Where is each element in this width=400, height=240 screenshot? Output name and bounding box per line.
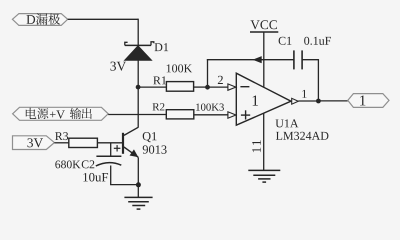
label C1 (279, 37, 292, 45)
wire C1 to node C (302, 59, 318, 101)
wire node A down to Q1 collector (137, 87, 139, 128)
transistor Q1 (123, 127, 138, 157)
node C junction dot (316, 99, 321, 104)
label LM324AD (276, 132, 329, 140)
port flag 电源+V输出 (13, 107, 109, 120)
wire D1 anode to node A (137, 60, 139, 87)
capacitor C1 plates (294, 50, 302, 69)
wire Q1 emitter down to node D (137, 157, 139, 184)
pin 2 arrow (228, 84, 236, 90)
ground at Q1 emitter (124, 197, 152, 209)
power VCC label (250, 20, 276, 29)
resistor R2 (166, 110, 194, 119)
label 100K value of R1 (167, 64, 192, 72)
port flag D漏极 (12, 13, 67, 25)
capacitor C2 positive stub (110, 143, 112, 156)
label 0.1uF value of C1 (304, 37, 331, 45)
label C2 (82, 160, 95, 168)
capacitor C2 plus mark (114, 145, 121, 151)
VCC bar (250, 31, 278, 33)
wire 电源 flag to R2 (108, 114, 166, 116)
zener diode D1 (125, 42, 154, 61)
wire node C to port 1 (318, 100, 347, 102)
label 100K3 value of R2 and pin number (196, 103, 224, 110)
wire node B up to rail (207, 59, 209, 87)
resistor R1 (166, 82, 193, 92)
capacitor C2 top plate (96, 155, 121, 157)
resistor R3 (69, 138, 98, 147)
op-amp U1A triangle (236, 73, 291, 125)
label R1 (153, 76, 166, 84)
pin 3 arrow (228, 112, 236, 118)
ground at op-amp pin 11 (248, 170, 280, 182)
pin 11 number rotated (252, 140, 261, 152)
wire C2 to node D (110, 166, 138, 185)
wire D漏极 to D1 (68, 19, 139, 46)
label 3V zener voltage (110, 62, 126, 71)
wire node D to ground (137, 185, 139, 198)
port flag 3V (13, 136, 55, 150)
pin 2 number (218, 76, 223, 84)
op-amp gate number 1 (253, 95, 258, 105)
label D1 (155, 43, 169, 51)
node A junction dot (136, 85, 141, 90)
wire R3 to Q1 base (97, 142, 122, 144)
wire node A to R1 (138, 86, 166, 88)
VCC stem wire to op-amp power pin (263, 32, 265, 87)
capacitor C2 curved plate (96, 163, 122, 166)
wire R1 to node B (194, 86, 208, 88)
pin 11 wire (263, 113, 265, 170)
wire op-amp output to node C (298, 100, 318, 102)
node B junction dot (205, 85, 210, 90)
op-amp minus input sign (240, 86, 249, 88)
wire R2 to pin 3 (194, 114, 229, 116)
op-amp output arrow (292, 98, 299, 104)
label 680K value of R3 (55, 160, 80, 168)
label R3 (55, 132, 68, 140)
label U1A (275, 119, 298, 127)
label 9013 type of Q1 (143, 145, 167, 153)
label R2 (153, 103, 165, 110)
wire rail to C1 (207, 59, 294, 61)
label 10uF value of C2 (83, 173, 108, 182)
port flag 1 output (348, 94, 389, 108)
label Q1 (143, 132, 157, 142)
op-amp plus input sign (241, 110, 250, 119)
wire 3V flag to R3 (54, 142, 68, 144)
node D junction dot (136, 182, 141, 187)
pin 1 number (302, 90, 306, 98)
wire node B to pin 2 (208, 86, 229, 88)
arrow on rail (254, 57, 262, 63)
